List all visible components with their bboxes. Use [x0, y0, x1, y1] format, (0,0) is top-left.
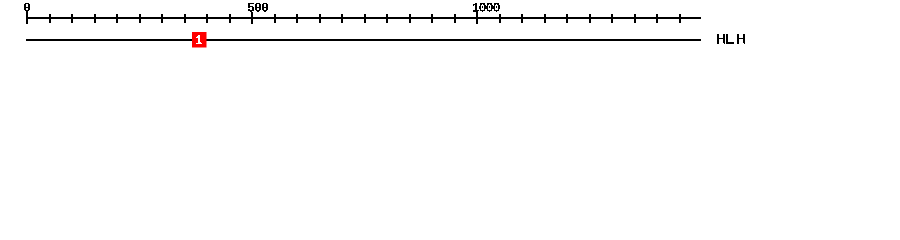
ruler minor ticks every 50 units [49, 14, 681, 23]
ruler label 0 [24, 3, 30, 12]
ruler axis line 0-1500 [26, 17, 701, 19]
row label HLH [717, 34, 745, 44]
ruler major tick 0 [26, 12, 28, 24]
domain number 1 [196, 35, 202, 44]
ruler major tick 1000 [476, 12, 478, 24]
background [0, 0, 900, 58]
ruler label 500 [248, 3, 268, 12]
ruler label 1000 [473, 3, 500, 12]
domain box (red) [192, 32, 207, 48]
ruler major tick 500 [251, 12, 253, 24]
sequence backbone line [26, 39, 701, 41]
